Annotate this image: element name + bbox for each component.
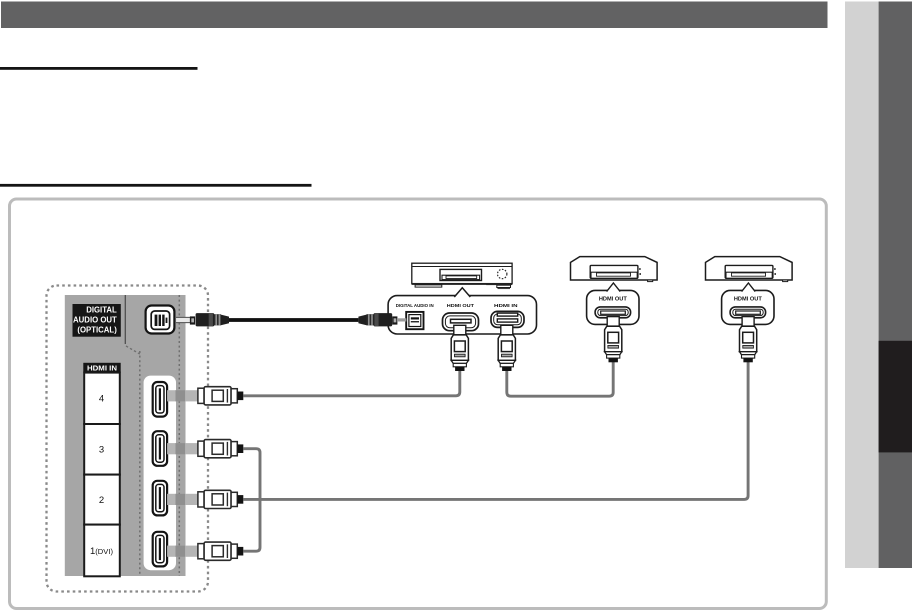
- DVD ports callout panel: [388, 288, 536, 334]
- DVD label DIGITAL AUDIO IN: [396, 303, 435, 308]
- svg-text:AUDIO OUT: AUDIO OUT: [73, 316, 117, 325]
- HDMI IN label: [83, 363, 120, 373]
- panel divider diagonal: [126, 346, 140, 354]
- svg-text:2: 2: [99, 495, 104, 506]
- main diagram box: [10, 199, 827, 609]
- HDMI IN cell 3: [84, 424, 120, 475]
- cable DVD HDMI IN to device2 HDMI OUT: [507, 362, 613, 396]
- device2 HDMI OUT connector plug: [605, 317, 622, 363]
- sidebar black tab: [879, 341, 912, 453]
- TV HDMI port 2: [153, 481, 167, 516]
- DVD HDMI OUT connector plug: [451, 325, 468, 371]
- optical cable gray stub DVD side: [397, 318, 406, 321]
- heading underline 2: [0, 184, 312, 187]
- sidebar dark strip: [879, 2, 912, 569]
- DVD label HDMI OUT: [447, 303, 474, 308]
- cable port4 to DVD HDMI OUT: [243, 370, 459, 396]
- svg-text:(OPTICAL): (OPTICAL): [77, 326, 117, 335]
- device 2 player body: [571, 257, 658, 325]
- TV HDMI port 1: [153, 532, 167, 567]
- TV HDMI port 3: [153, 431, 167, 466]
- DVD player body: [412, 263, 513, 288]
- TV HDMI connector 1: [167, 542, 243, 560]
- TV HDMI port 4: [153, 382, 167, 417]
- DVD optical port: [406, 312, 423, 329]
- TV HDMI connector 3: [167, 440, 243, 458]
- cable port2 to device3 HDMI OUT: [243, 362, 748, 499]
- svg-text:DIGITAL: DIGITAL: [86, 306, 117, 315]
- svg-text:4: 4: [99, 394, 104, 405]
- TV optical port: [146, 306, 175, 334]
- panel inner dashed line right: [178, 295, 180, 576]
- svg-text:DIGITAL AUDIO IN: DIGITAL AUDIO IN: [396, 303, 435, 308]
- device3 HDMI OUT connector plug: [740, 317, 757, 363]
- optical cable run: [229, 318, 358, 322]
- DVD HDMI OUT receptacle: [443, 313, 479, 331]
- DIGITAL AUDIO OUT (OPTICAL) label: [73, 304, 121, 337]
- optical cable DVD-side plug: [358, 313, 397, 326]
- sidebar light strip: [845, 2, 879, 569]
- HDMI IN cell 4: [84, 373, 120, 424]
- DVD HDMI IN connector plug: [498, 325, 515, 371]
- TV dashed outline: [47, 286, 209, 592]
- TV HDMI connector 2: [167, 490, 243, 508]
- DVD HDMI IN receptacle: [491, 311, 524, 327]
- svg-text:HDMI OUT: HDMI OUT: [447, 303, 474, 308]
- panel divider solid: [124, 295, 126, 344]
- svg-text:3: 3: [99, 445, 104, 456]
- TV gray panel: [65, 295, 186, 576]
- HDMI IN cell 2: [84, 475, 120, 525]
- svg-text:1(DVI): 1(DVI): [90, 546, 113, 557]
- svg-text:HDMI IN: HDMI IN: [87, 366, 117, 373]
- svg-text:HDMI IN: HDMI IN: [494, 303, 518, 308]
- top header bar: [1, 2, 828, 29]
- heading underline 1: [0, 67, 198, 70]
- panel inner dashed line left: [139, 351, 141, 576]
- TV ports white column: [144, 376, 176, 571]
- TV HDMI connector 4: [167, 387, 243, 405]
- optical cable TV-side plug: [190, 313, 229, 326]
- cable port3 to port1 loop: [243, 449, 260, 552]
- HDMI IN cell 1(DVI): [84, 525, 120, 577]
- DVD label HDMI IN: [494, 303, 518, 308]
- optical cable white link TV side: [176, 317, 191, 322]
- device 3 player body: [706, 257, 793, 325]
